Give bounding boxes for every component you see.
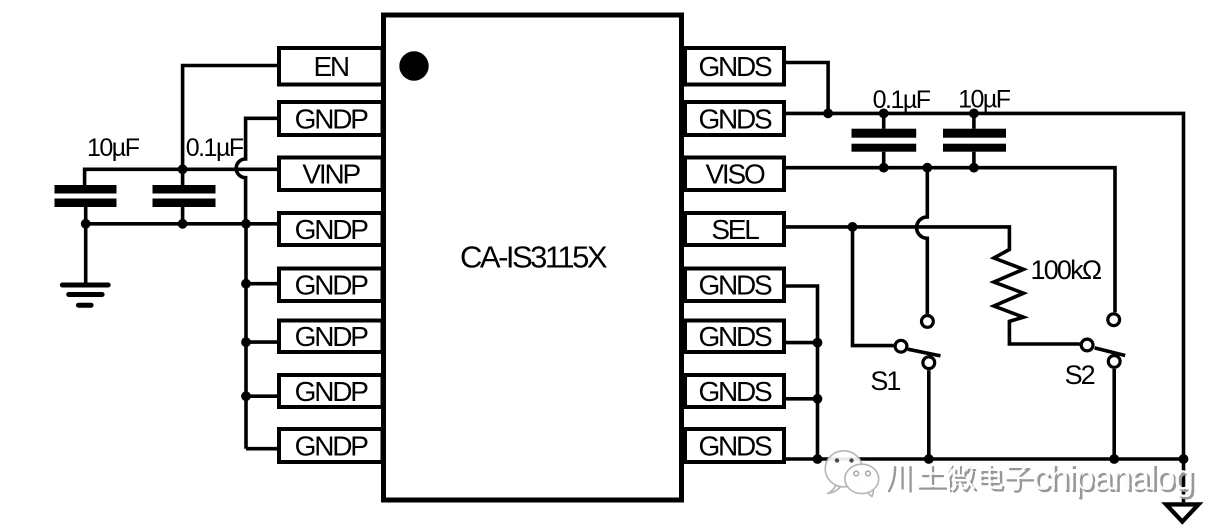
svg-text:CA-IS3115X: CA-IS3115X [460, 239, 608, 274]
svg-text:GNDS: GNDS [698, 270, 772, 301]
svg-text:GNDS: GNDS [698, 376, 772, 407]
svg-text:GNDS: GNDS [698, 51, 772, 82]
svg-text:GNDS: GNDS [698, 430, 772, 461]
svg-text:100kΩ: 100kΩ [1031, 255, 1102, 285]
svg-text:GNDP: GNDP [295, 376, 369, 407]
svg-text:GNDP: GNDP [295, 103, 369, 134]
svg-text:VISO: VISO [705, 159, 765, 190]
svg-text:GNDP: GNDP [295, 430, 369, 461]
svg-text:GNDS: GNDS [698, 321, 772, 352]
svg-text:10µF: 10µF [87, 134, 140, 162]
svg-text:GNDS: GNDS [698, 103, 772, 134]
svg-text:S2: S2 [1065, 360, 1095, 390]
svg-text:SEL: SEL [711, 214, 759, 245]
svg-text:10µF: 10µF [958, 86, 1011, 114]
svg-text:GNDP: GNDP [295, 270, 369, 301]
svg-text:EN: EN [313, 51, 348, 82]
svg-text:VINP: VINP [302, 159, 360, 190]
svg-text:0.1µF: 0.1µF [186, 134, 244, 162]
svg-text:GNDP: GNDP [295, 214, 369, 245]
svg-text:GNDP: GNDP [295, 321, 369, 352]
svg-text:S1: S1 [870, 366, 900, 396]
svg-text:chipanalog: chipanalog [1033, 456, 1193, 497]
